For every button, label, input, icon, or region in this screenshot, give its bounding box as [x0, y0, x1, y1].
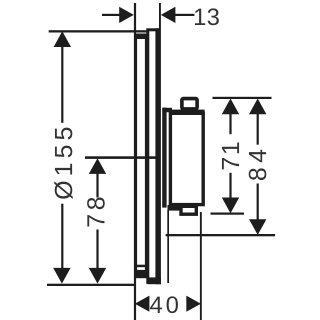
plate back slab [136, 35, 147, 277]
dim 155 upper stem [61, 45, 63, 123]
dim 155 top arrow [54, 31, 71, 47]
dim 84 label [249, 150, 267, 180]
plate front face thick line [155, 28, 161, 284]
dim 13 label [195, 8, 219, 25]
dim 13 arrow left [119, 7, 134, 23]
dim 155 top ref line [49, 30, 148, 32]
dim 13 tail left [102, 14, 122, 16]
dim 13 tail right [174, 14, 195, 16]
dim 13 arrow right [161, 7, 176, 23]
dim 155 bottom ref line [47, 284, 136, 286]
sleeve top corner [164, 108, 173, 112]
dim 84 lower stem [257, 184, 259, 222]
dim 84 top arrow [249, 99, 266, 115]
dim 78 lower stem [96, 230, 98, 270]
dim 84 upper stem [257, 112, 259, 145]
plate back slab bottom band [134, 270, 148, 278]
dim 71 bottom arrow [222, 198, 239, 214]
plate back slab top band [134, 34, 148, 39]
knob bottom step block [168, 205, 182, 211]
dim 71 lower stem [229, 173, 231, 200]
dim 155 bottom arrow [53, 268, 70, 284]
dim 78 bottom arrow [89, 268, 106, 284]
dim 40 right arrow [186, 296, 201, 312]
knob bottom tab [181, 206, 196, 214]
dim 13 ext line right [159, 3, 161, 29]
plate back slab inner line [135, 265, 147, 268]
dim 40 ext line right [200, 212, 202, 320]
dim 71 top arrow [222, 99, 239, 115]
knob body [170, 113, 203, 204]
knob top tab [182, 99, 197, 109]
sleeve bar [162, 108, 166, 208]
centerline [85, 156, 156, 159]
dim 71 upper stem [229, 112, 231, 134]
dim 71 label [222, 143, 239, 170]
plate front slab [148, 30, 158, 283]
wall line [134, 3, 136, 320]
dim 155 lower stem [61, 204, 63, 270]
dim 84 bottom ref line [166, 234, 276, 236]
dim 71 top ref line [213, 97, 272, 99]
dim 78 label [87, 198, 105, 227]
dim 78 top arrow [89, 158, 106, 174]
dim 84 bottom arrow [249, 219, 266, 235]
knob drop line [167, 210, 169, 283]
plate front slab bottom band [148, 277, 161, 284]
dim 155 label [54, 128, 72, 199]
dim 78 upper stem [96, 172, 98, 198]
dim 71 bottom ref line [211, 213, 245, 215]
dim 40 label [150, 296, 178, 313]
knob top edge thickener [169, 110, 205, 113]
dim 40 left arrow [135, 296, 150, 312]
